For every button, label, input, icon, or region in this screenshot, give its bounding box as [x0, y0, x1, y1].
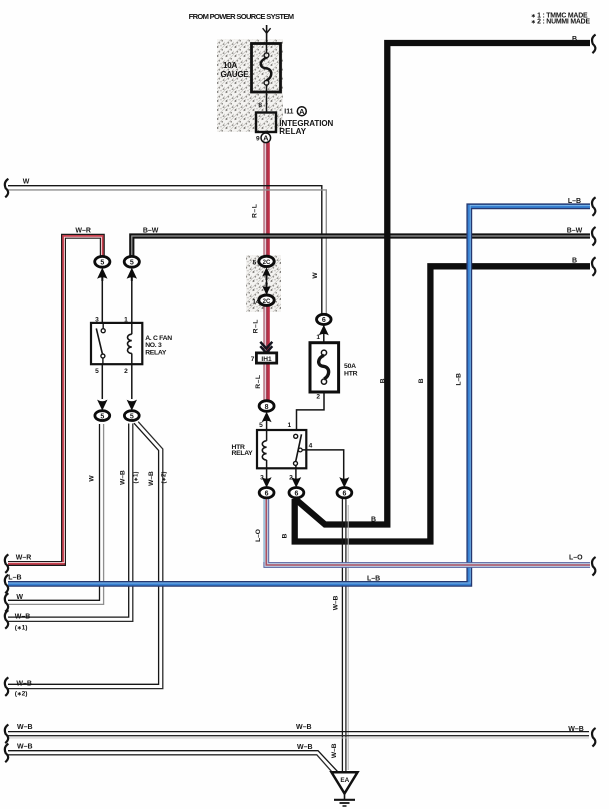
svg-text:RELAY: RELAY [279, 127, 306, 136]
svg-text:W: W [16, 594, 23, 601]
svg-text:L–O: L–O [255, 529, 262, 542]
connector A circle beside I11 label [297, 107, 306, 116]
svg-text:4: 4 [309, 443, 313, 450]
continuation brace left: W-B *2 [5, 677, 9, 696]
svg-text:EA: EA [340, 777, 349, 784]
connector 5 ellipse on R-L wire (hatched area) [259, 256, 274, 266]
svg-text:W–B: W–B [120, 470, 127, 485]
svg-text:1: 1 [124, 316, 128, 323]
svg-text:5: 5 [130, 413, 134, 420]
svg-text:5: 5 [95, 368, 99, 375]
svg-text:GAUGE: GAUGE [221, 70, 250, 79]
wire junction 8 to HTR relay pin 5 [266, 419, 268, 430]
continuation brace left: W-R [5, 554, 9, 573]
svg-text:6: 6 [342, 491, 346, 498]
svg-text:(∗1): (∗1) [133, 472, 140, 484]
svg-text:2: 2 [124, 368, 128, 375]
svg-text:2: 2 [289, 475, 293, 482]
arrow up into connector 6 [319, 325, 329, 336]
continuation brace left: W-B *1 [5, 610, 9, 629]
svg-text:2C: 2C [263, 260, 271, 266]
svg-text:10A: 10A [223, 61, 237, 70]
svg-text:∗ 2 : NUMMI MADE: ∗ 2 : NUMMI MADE [531, 18, 590, 25]
svg-text:HTR: HTR [344, 370, 358, 377]
connector 5 ellipse (A.C fan relay pin 3, top) [95, 256, 110, 267]
svg-text:R–L: R–L [253, 319, 260, 333]
connector 6 ellipse under pin 4 wire [337, 488, 352, 498]
svg-text:7: 7 [251, 356, 255, 363]
svg-text:W–B: W–B [297, 744, 313, 751]
wire 50A fuse pin 2 to HTR relay pin 1 [297, 392, 325, 430]
connector 6 ellipse under pin 3 [259, 488, 274, 498]
svg-text:3: 3 [260, 475, 264, 482]
wire L-O (from HTR relay pin 3 connector to right edge) [264, 499, 590, 565]
HTR relay switch [294, 434, 303, 465]
wire L-B (from right edge, down the right side, left to left edge) [8, 205, 590, 584]
svg-text:5: 5 [100, 413, 104, 420]
svg-text:8: 8 [265, 404, 269, 411]
chevron junction above IH1 [260, 342, 272, 353]
continuation brace left: L-B [5, 575, 9, 594]
svg-text:A: A [263, 134, 269, 143]
wire B no.2 (from right edge middle, down, left and up to HTR relay pin 2 connector) [295, 266, 590, 541]
wire B no.1 (from right edge top, down and to HTR relay pin 2 connector) [297, 43, 591, 525]
svg-text:3: 3 [95, 316, 99, 323]
svg-text:(∗1): (∗1) [15, 625, 28, 632]
arrow down into connector 6 (pin 4) [339, 477, 349, 488]
svg-text:5: 5 [253, 259, 257, 266]
ground EA [332, 772, 358, 806]
svg-text:B: B [572, 258, 577, 265]
svg-text:1: 1 [287, 422, 291, 429]
continuation brace left: W-B bottom line2 [5, 744, 9, 763]
svg-text:W: W [88, 475, 95, 482]
wire W from connector 6 to 50A fuse [323, 325, 325, 343]
continuation squiggle right: B top [592, 35, 596, 54]
svg-text:IH1: IH1 [261, 356, 272, 363]
A.C fan relay coil [128, 323, 132, 364]
connector 6 ellipse above 50A fuse [317, 314, 332, 324]
svg-text:W–B: W–B [148, 471, 155, 486]
arrow up into connector 5 [262, 267, 271, 276]
svg-text:5: 5 [100, 260, 104, 267]
svg-text:50A: 50A [344, 363, 356, 370]
svg-text:FROM POWER SOURCE SYSTEM: FROM POWER SOURCE SYSTEM [189, 12, 294, 21]
svg-text:B: B [418, 378, 425, 383]
wire W-B bottom line 2 (to ground EA) [8, 751, 338, 774]
arrow from power source system [263, 25, 271, 44]
wire HTR relay pin 4 to connector 6 [302, 450, 344, 480]
svg-text:A: A [299, 107, 305, 116]
junction 8 ellipse [259, 401, 274, 412]
svg-text:9: 9 [256, 135, 260, 142]
svg-text:L–B: L–B [455, 373, 462, 386]
svg-text:B–W: B–W [143, 227, 159, 234]
arrow down into connector 6 (pin 3) [262, 477, 272, 488]
svg-text:W: W [312, 272, 319, 279]
svg-text:W–B: W–B [568, 726, 584, 733]
svg-text:5: 5 [130, 260, 134, 267]
continuation brace left: W [5, 179, 9, 198]
continuation squiggle right: W-B bottom [592, 728, 596, 747]
continuation squiggle right: B-W [592, 227, 596, 246]
wire W (top horizontal from left edge, down to 50A HTR fuse) [8, 186, 326, 315]
svg-text:(∗2): (∗2) [161, 472, 168, 484]
svg-text:14: 14 [252, 299, 260, 306]
continuation squiggle right: L-O [592, 557, 596, 576]
svg-text:5: 5 [259, 422, 263, 429]
wire HTR relay pin 2 down [295, 465, 297, 480]
connector 5 ellipse (pin 2, bottom) [124, 411, 139, 421]
A.C fan relay switch [96, 323, 105, 364]
arrow down into connector (pin 2) [127, 400, 137, 411]
arrow down into connector (pin 5) [97, 400, 107, 411]
svg-text:W–B: W–B [296, 724, 312, 731]
svg-text:(∗2): (∗2) [15, 690, 28, 697]
connector 5 ellipse (A.C fan relay pin 1, top) [124, 256, 139, 267]
wire W vertical below A.C fan relay pin 5 connector [8, 424, 104, 604]
wire R-L vertical (upper segment, from integration relay to connector 5) [265, 142, 268, 257]
wire connector to A.C relay pin 3 [101, 278, 103, 323]
svg-text:I11: I11 [284, 109, 293, 116]
arrow down into connector 14 [262, 286, 271, 295]
svg-text:6: 6 [265, 491, 269, 498]
svg-text:R–L: R–L [251, 204, 258, 218]
svg-text:W–R: W–R [75, 227, 91, 234]
svg-text:NO. 3: NO. 3 [145, 342, 162, 349]
svg-text:B: B [572, 36, 577, 43]
svg-text:2C: 2C [263, 299, 271, 305]
HTR relay coil [262, 430, 266, 468]
connector 6 ellipse under pin 2 [289, 488, 304, 498]
svg-text:6: 6 [322, 317, 326, 324]
svg-text:W–B: W–B [15, 614, 31, 621]
wire HTR relay pin 3 down [266, 468, 268, 480]
svg-text:L–B: L–B [8, 575, 21, 582]
svg-text:W: W [23, 179, 30, 186]
svg-text:R–L: R–L [255, 374, 262, 388]
svg-text:RELAY: RELAY [232, 450, 254, 457]
svg-text:W–B: W–B [332, 595, 339, 610]
connector 5 ellipse (pin 5, bottom) [95, 411, 110, 421]
svg-text:W–R: W–R [16, 554, 32, 561]
wire W-B (*2) from A.C fan relay pin 2 connector to left edge [8, 422, 163, 689]
continuation brace left: W-B bottom line1 [5, 725, 9, 744]
wire R-L vertical (lower segment, from connector 14 to junction 8) [265, 305, 268, 401]
wire W-B ground stem (from HTR relay pin 4 connector down to ground EA) [342, 499, 348, 773]
connector A circle below integration relay [261, 133, 271, 143]
wire B-W (horizontal from right edge down to A.C fan relay pin 1) [132, 236, 590, 257]
svg-text:RELAY: RELAY [145, 349, 167, 356]
hatch shading around connector pair 5/14 [246, 255, 281, 312]
wire connector to A.C relay pin 1 [131, 278, 133, 323]
hatch shading around 10A GAUGE fuse [217, 39, 283, 132]
svg-text:W–B: W–B [331, 743, 338, 758]
arrow up below connector (pin 3) [97, 268, 107, 279]
svg-text:A. C FAN: A. C FAN [145, 335, 172, 342]
fuse 50A HTR [310, 343, 339, 392]
svg-text:1: 1 [316, 334, 320, 341]
svg-text:W–B: W–B [16, 680, 32, 687]
continuation squiggle right: B mid [592, 257, 596, 276]
relay box HTR RELAY [257, 430, 306, 468]
svg-text:8: 8 [258, 102, 262, 109]
junction connector IH1 [256, 353, 276, 363]
svg-text:2: 2 [316, 393, 320, 400]
arrow up below connector (pin 1) [127, 268, 137, 279]
svg-text:W–B: W–B [17, 744, 33, 751]
wire W-B (*1) from A.C fan relay pin 2 connector to left edge [8, 424, 133, 622]
wire between connector 5 and 14 [266, 276, 268, 288]
wire A.C relay pin 5 down [101, 364, 103, 399]
wire W-R (from left edge up to A.C fan relay pin 3) [8, 236, 102, 563]
svg-text:L–B: L–B [367, 575, 380, 582]
svg-text:B: B [371, 517, 376, 524]
wire A.C relay pin 2 down [131, 364, 133, 399]
continuation brace left: W (bottom) [5, 593, 9, 612]
svg-text:B–W: B–W [567, 228, 583, 235]
svg-text:W–B: W–B [17, 724, 33, 731]
arrow up into junction 8 [262, 412, 272, 423]
svg-text:6: 6 [294, 491, 298, 498]
connector 14 ellipse on R-L wire [259, 295, 274, 305]
fuse 10A GAUGE [252, 44, 281, 113]
wire W-B bottom line 1 (full width) [8, 732, 589, 738]
integration relay I11 box [256, 113, 276, 133]
relay box A.C FAN NO.3 RELAY [91, 323, 142, 364]
svg-text:B: B [379, 378, 386, 383]
svg-text:B: B [281, 533, 288, 538]
arrow down into connector 6 (pin 2) [291, 477, 301, 488]
svg-text:L–O: L–O [569, 554, 583, 561]
svg-text:L–B: L–B [568, 198, 581, 205]
continuation squiggle right: L-B [592, 197, 596, 216]
